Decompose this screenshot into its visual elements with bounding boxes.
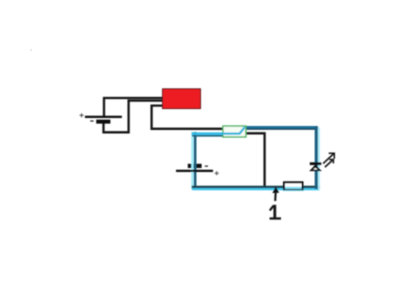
node 1 label stem	[273, 205, 276, 218]
cyan jog inside green component	[222, 127, 245, 134]
blue loop bottom edge (dark)	[192, 186, 320, 188]
blue loop top-right horizontal (dark underline)	[245, 128, 317, 130]
node 1 pointer arrow shaft	[274, 193, 276, 201]
cyan sliver under resistor	[284, 190, 304, 192]
node 1 label flag	[270, 206, 274, 211]
LED D1 triangle	[309, 165, 322, 172]
battery B2 positive long plate	[176, 170, 213, 172]
blue loop right edge (dark)	[315, 127, 318, 189]
blue loop bottom edge (cyan)	[192, 188, 320, 190]
blue loop top-right horizontal (main)	[244, 126, 318, 129]
battery B1 minus label	[90, 120, 93, 122]
stray speck	[30, 49, 32, 51]
battery B1 negative thick plate	[96, 120, 110, 124]
battery B2 plus label	[215, 171, 219, 175]
blue loop left edge (cyan highlight)	[191, 132, 193, 190]
wire red box to relay/green component	[152, 106, 223, 129]
red box (load/module)	[163, 89, 201, 109]
blue loop top-left horizontal (dark underline)	[192, 135, 223, 137]
node 1 label base	[270, 217, 281, 219]
battery B2 negative thick plate	[188, 164, 202, 168]
blue loop top-left horizontal (cyan)	[192, 132, 224, 135]
node 1 pointer arrow head	[272, 187, 279, 193]
LED emission arrow 2 shaft	[325, 160, 333, 168]
LED emission arrow 1 head	[329, 153, 335, 159]
blue loop right edge (cyan highlight)	[318, 127, 320, 189]
cyan line crossing inside resistor	[285, 187, 302, 189]
LED D1 triangle inner white	[313, 168, 318, 170]
battery B1 plus label	[80, 113, 84, 117]
resistor R1 (white box on bottom edge)	[284, 182, 303, 190]
battery B1 positive long plate	[85, 116, 122, 118]
battery B2 minus label	[205, 165, 208, 167]
wire battery1-positive to red box top	[104, 98, 163, 117]
wire battery1-negative down, right, up to red box	[104, 101, 164, 133]
wire green component right to bottom of blue loop	[246, 133, 265, 187]
LED emission arrow 2 head	[329, 160, 333, 164]
blue loop left edge (dark)	[194, 132, 197, 188]
green component (relay/fuse box)	[223, 126, 246, 137]
LED D1 cathode bar	[310, 162, 321, 165]
LED emission arrow 1 shaft	[323, 154, 334, 164]
